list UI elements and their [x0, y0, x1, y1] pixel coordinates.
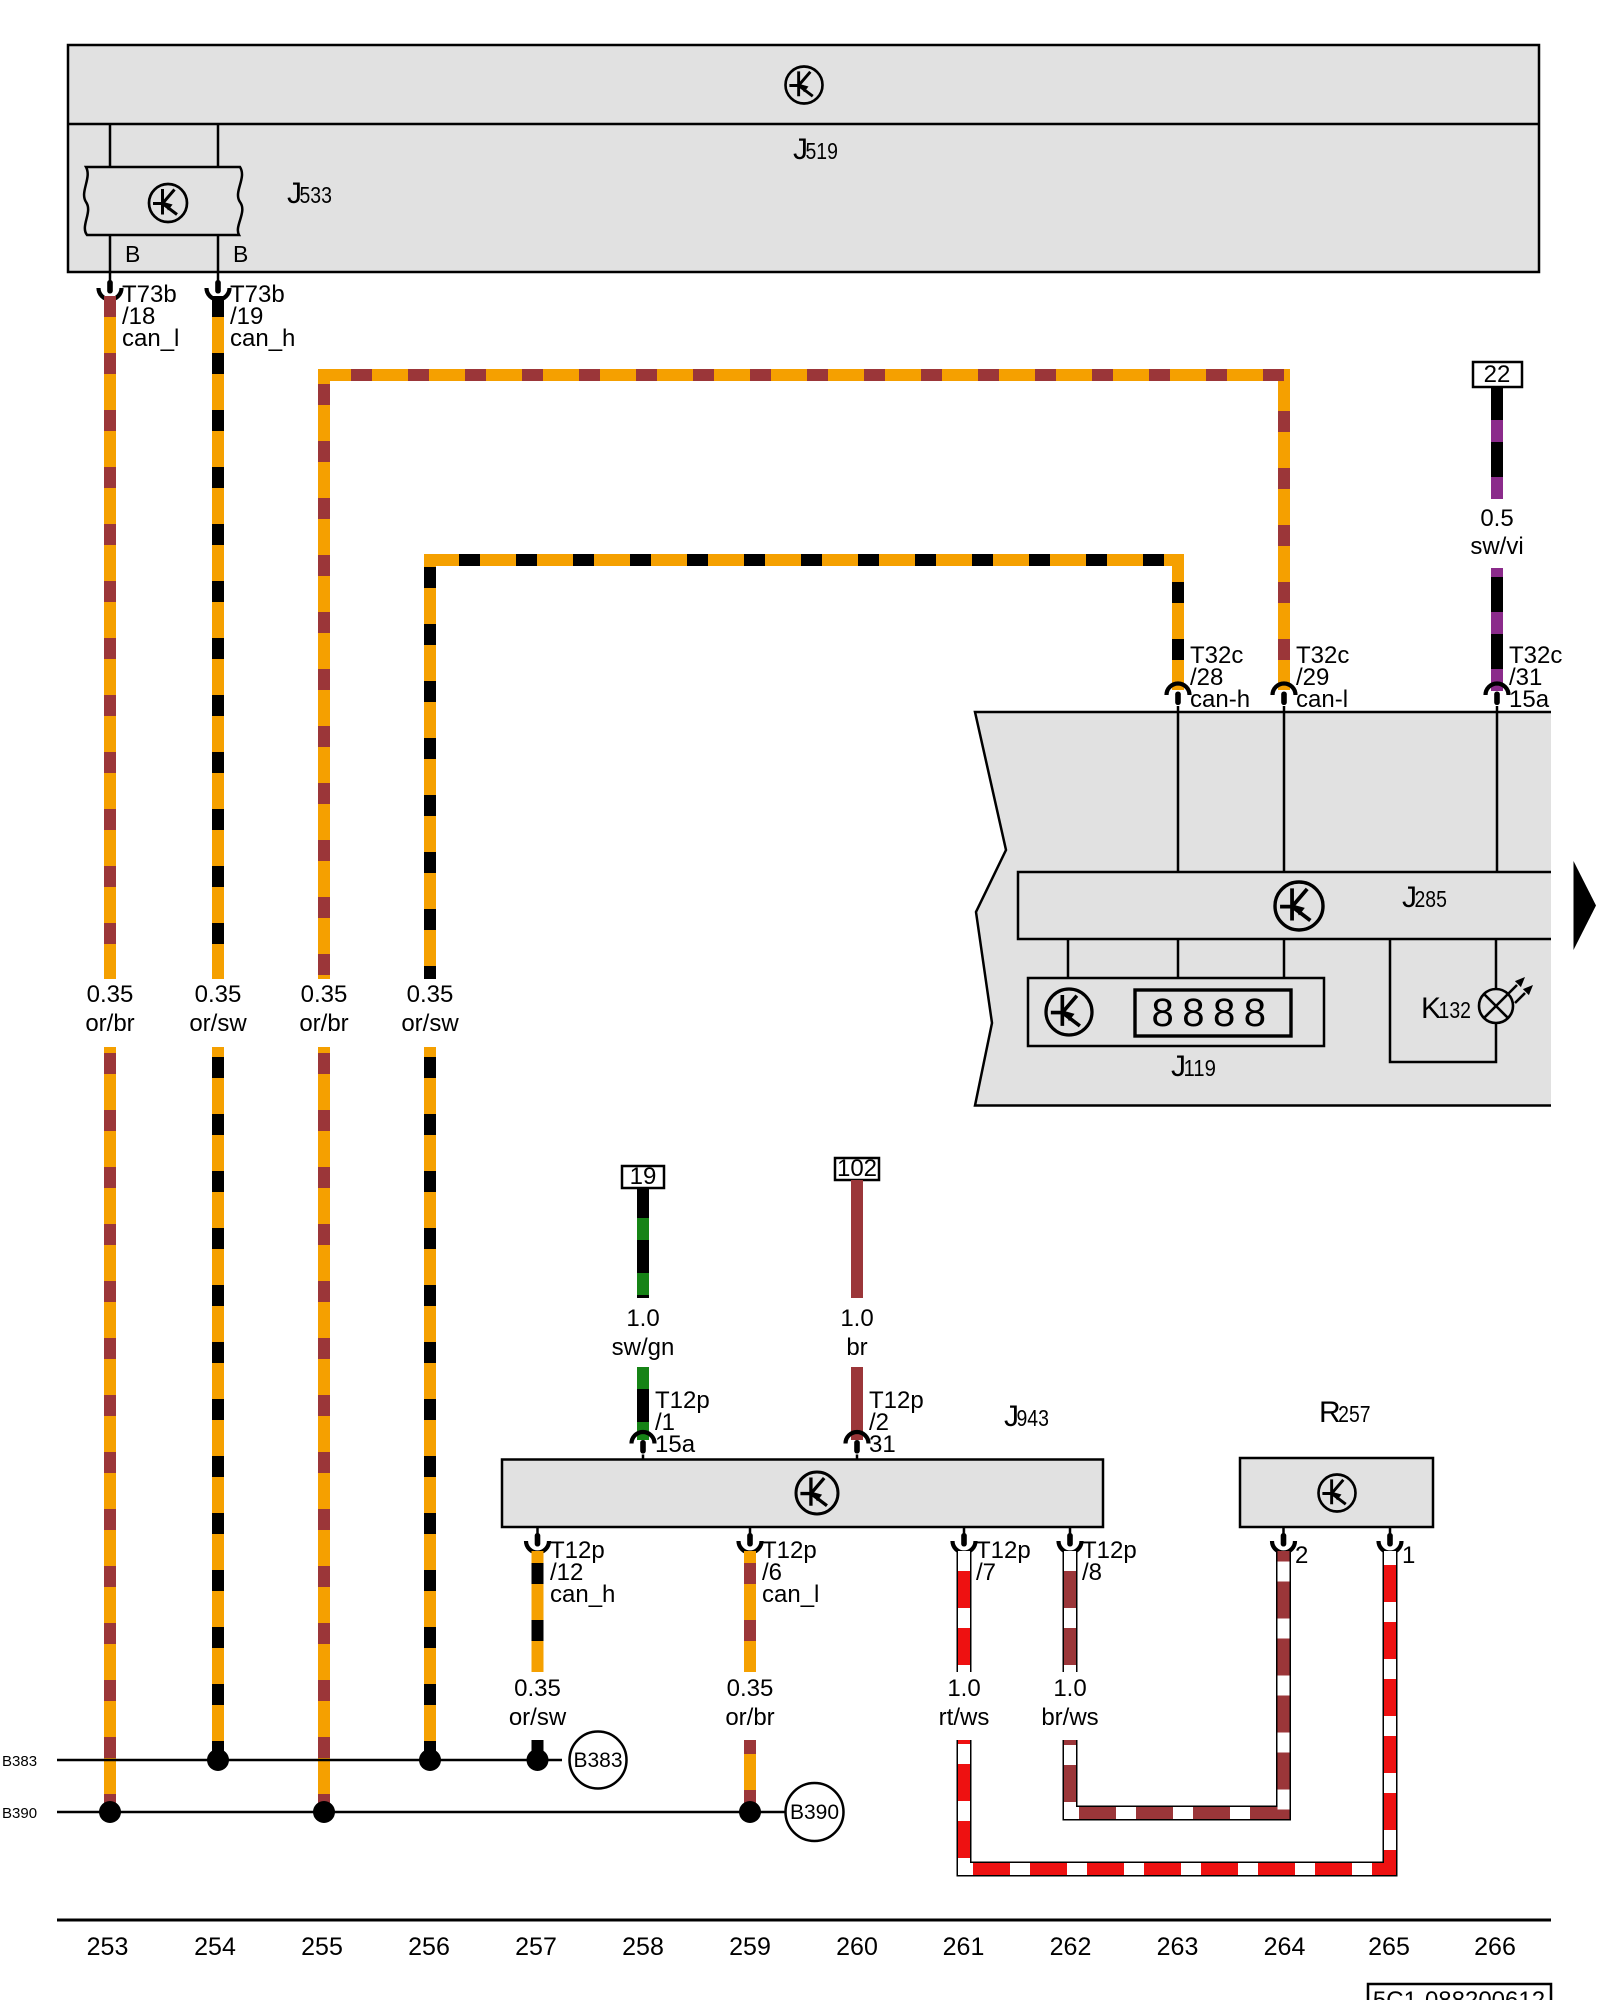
margin label B383 — [2, 1753, 37, 1770]
track number 259 — [729, 1933, 771, 1961]
control unit J943 (bar with K symbol) — [502, 1460, 1103, 1528]
svg-text:262: 262 — [1050, 1933, 1092, 1961]
svg-text:J119: J119 — [1171, 1050, 1216, 1083]
svg-text:261: 261 — [943, 1933, 985, 1961]
wire B stub left (J533 pin B to J519 internals) — [109, 124, 112, 274]
wire T32c/31 pin to J285 bar — [1496, 711, 1499, 872]
wire 0.35 or/br (T12p/6 to B390) upper segment — [744, 1551, 756, 1672]
control unit J519 (onboard supply control unit) — [68, 45, 1539, 272]
svg-text:0.35: 0.35 — [407, 981, 454, 1008]
junction dot wire254 on B383 — [207, 1749, 229, 1771]
ground rail B390 (horizontal line) — [57, 1811, 785, 1814]
svg-text:0.5: 0.5 — [1480, 505, 1513, 532]
connector T12p/7 — [953, 1527, 1031, 1586]
svg-text:1.0: 1.0 — [840, 1305, 873, 1332]
value label 0.35 or/sw (wire 254) — [189, 981, 247, 1037]
svg-text:257: 257 — [515, 1933, 557, 1961]
instrument cluster region (torn-edge area containing J285, J119, K132) — [975, 712, 1551, 1106]
connector T73b/19 — [207, 274, 296, 352]
svg-text:1.0: 1.0 — [626, 1305, 659, 1332]
terminal 102 (node box) — [835, 1155, 879, 1182]
connector T12p/6 can_l — [739, 1527, 820, 1608]
value label 0.35 or/br (wire 255) — [299, 981, 348, 1037]
svg-text:K132: K132 — [1421, 992, 1471, 1025]
svg-text:J533: J533 — [287, 177, 332, 210]
value label 1.0 br/ws (wire 262) — [1041, 1675, 1098, 1731]
wire 0.35 or/br lower segment to B390 — [744, 1740, 756, 1812]
track number 255 — [301, 1933, 343, 1961]
connector T32c/28 can-h — [1167, 642, 1251, 713]
wire can-l 0.35 or/br lower segment to B390 — [318, 1047, 330, 1812]
svg-text:0.35: 0.35 — [514, 1675, 561, 1702]
gateway J533 (data bus diagnostic interface, torn-edge box) — [84, 167, 332, 235]
wire 1.0 rt/ws (T12p/7 to R257 pin 1) upper segment — [957, 1551, 972, 1672]
svg-text:1.0: 1.0 — [947, 1675, 980, 1702]
wire T32c/28 pin to J285 bar — [1177, 711, 1180, 872]
wire can_l 0.35 or/br (J533 T73b/18 to ground B390), upper segment — [104, 296, 116, 979]
svg-text:254: 254 — [194, 1933, 236, 1961]
wire J285 to J119 (left) — [1067, 939, 1070, 979]
wire B stub right (J533 pin B to J519 internals) — [217, 124, 220, 274]
junction dot wire253 on B390 — [99, 1801, 121, 1823]
svg-text:rt/ws: rt/ws — [939, 1704, 990, 1731]
wire can_h 0.35 or/sw lower segment — [212, 1047, 224, 1760]
svg-text:or/br: or/br — [299, 1010, 348, 1037]
svg-text:or/br: or/br — [725, 1704, 774, 1731]
track number 262 — [1050, 1933, 1092, 1961]
wire 1.0 sw/gn upper segment — [637, 1188, 649, 1298]
svg-text:J943: J943 — [1004, 1400, 1049, 1433]
label K132 — [1421, 992, 1471, 1025]
ground designation circle B390 — [786, 1783, 844, 1841]
svg-text:B383: B383 — [573, 1749, 622, 1772]
connector T12p/12 can_h — [526, 1527, 615, 1608]
wire 1.0 br upper segment — [851, 1180, 863, 1298]
svg-text:or/sw: or/sw — [401, 1010, 459, 1037]
svg-text:266: 266 — [1474, 1933, 1516, 1961]
svg-text:1: 1 — [1402, 1542, 1415, 1569]
connector T73b/18 — [99, 274, 180, 352]
pin label B (right) — [233, 241, 248, 267]
connector T12p/1 15a — [632, 1387, 710, 1460]
svg-text:22: 22 — [1484, 361, 1511, 388]
wire 0.35 or/sw stub to B383 — [532, 1740, 544, 1760]
svg-text:or/br: or/br — [85, 1010, 134, 1037]
track number 257 — [515, 1933, 557, 1961]
terminal 19 (node box) — [622, 1163, 664, 1190]
svg-text:0.35: 0.35 — [301, 981, 348, 1008]
connector R257 pin 1 — [1379, 1527, 1416, 1569]
svg-text:J519: J519 — [793, 133, 838, 166]
value label 0.35 or/br (wire 259) — [725, 1675, 774, 1731]
track number 253 — [87, 1933, 129, 1961]
svg-text:263: 263 — [1157, 1933, 1199, 1961]
track number 266 — [1474, 1933, 1516, 1961]
svg-text:sw/vi: sw/vi — [1470, 533, 1523, 560]
wire J285 to J119 (right) — [1283, 939, 1286, 979]
svg-text:260: 260 — [836, 1933, 878, 1961]
wire 0.5 sw/vi upper segment — [1491, 387, 1503, 499]
wire 1.0 br/ws (T12p/8 to R257 pin 2) upper segment — [1063, 1551, 1078, 1672]
label J119 — [1171, 1050, 1216, 1083]
svg-text:253: 253 — [87, 1933, 129, 1961]
display 8888 (odometer readout) — [1135, 990, 1291, 1036]
svg-text:255: 255 — [301, 1933, 343, 1961]
wire 0.35 or/sw (T12p/12 to B383) upper segment — [532, 1551, 544, 1672]
svg-text:0.35: 0.35 — [87, 981, 134, 1008]
svg-text:or/sw: or/sw — [189, 1010, 247, 1037]
svg-text:1.0: 1.0 — [1053, 1675, 1086, 1702]
part number box 5C1-088200612 — [1368, 1984, 1551, 2000]
track number 256 — [408, 1933, 450, 1961]
svg-text:B383: B383 — [2, 1753, 37, 1770]
control unit J119 (multi-function display box) — [1028, 978, 1324, 1046]
track number 254 — [194, 1933, 236, 1961]
svg-text:0.35: 0.35 — [727, 1675, 774, 1702]
svg-text:B: B — [125, 241, 140, 267]
connector T12p/2 31 — [846, 1387, 924, 1460]
wire 1.0 br lower segment — [851, 1367, 863, 1440]
current track baseline — [57, 1919, 1551, 1922]
junction dot wire259 on B390 — [739, 1801, 761, 1823]
svg-text:258: 258 — [622, 1933, 664, 1961]
junction dot wire257 on B383 — [527, 1749, 549, 1771]
label J943 — [1004, 1400, 1049, 1433]
svg-text:B: B — [233, 241, 248, 267]
wire T32c/29 pin to J285 bar — [1283, 711, 1286, 872]
value label 1.0 sw/gn — [612, 1305, 675, 1361]
svg-text:5C1-088200612: 5C1-088200612 — [1373, 1987, 1545, 2000]
wire can_l 0.35 or/br lower segment — [104, 1047, 116, 1812]
margin label B390 — [2, 1805, 37, 1822]
wire can-l 0.35 or/br (T32c/29 of J285 down-over-down), upper segment — [324, 375, 1284, 979]
connector T32c/29 can-l — [1273, 642, 1350, 713]
control unit J285 (instrument cluster bar) — [1018, 872, 1551, 939]
wire J285 to J119 (middle) — [1177, 939, 1180, 979]
wire 0.5 sw/vi lower segment — [1491, 568, 1503, 691]
value label 1.0 br — [840, 1305, 873, 1361]
value label 0.35 or/sw (wire 256) — [401, 981, 459, 1037]
svg-text:J285: J285 — [1402, 881, 1447, 914]
wire loop J285 to lamp K132 — [1390, 939, 1496, 1062]
svg-text:br/ws: br/ws — [1041, 1704, 1098, 1731]
track number 263 — [1157, 1933, 1199, 1961]
svg-text:2: 2 — [1295, 1542, 1308, 1569]
value label 0.35 or/br (wire 253) — [85, 981, 134, 1037]
wire can-h 0.35 or/sw lower segment to B383 — [424, 1047, 436, 1760]
connector R257 pin 2 — [1272, 1527, 1308, 1569]
svg-text:265: 265 — [1368, 1933, 1410, 1961]
track number 260 — [836, 1933, 878, 1961]
track number 265 — [1368, 1933, 1410, 1961]
ground designation circle B383 — [570, 1732, 627, 1789]
svg-text:R257: R257 — [1319, 1396, 1371, 1429]
track number 261 — [943, 1933, 985, 1961]
svg-text:256: 256 — [408, 1933, 450, 1961]
wire can_h 0.35 or/sw (J533 T73b/19 to ground B383), upper segment — [212, 296, 224, 979]
svg-text:B390: B390 — [2, 1805, 37, 1822]
label R257 — [1319, 1396, 1371, 1429]
value label 0.5 sw/vi — [1470, 505, 1523, 560]
junction dot wire256 on B383 — [419, 1749, 441, 1771]
lamp K132 (warning lamp with LED arrows) — [1479, 977, 1533, 1023]
svg-text:sw/gn: sw/gn — [612, 1334, 675, 1361]
ground rail B383 (horizontal line) — [57, 1759, 562, 1762]
pin label B (left) — [125, 241, 140, 267]
wire 1.0 br/ws down-over-up run to R257 pin 2 — [1070, 1551, 1284, 1813]
wire 1.0 sw/gn lower segment — [637, 1367, 649, 1440]
svg-text:8888: 8888 — [1152, 991, 1275, 1035]
svg-text:19: 19 — [630, 1163, 657, 1190]
terminal 22 (node box) — [1473, 361, 1522, 388]
wire 1.0 rt/ws down-over-up run to R257 pin 1 — [964, 1551, 1390, 1869]
connector T12p/8 — [1059, 1527, 1137, 1586]
component R257 (bar with K symbol) — [1240, 1458, 1433, 1527]
wire can-h 0.35 or/sw (T32c/28 of J285 down-over-down), upper segment — [430, 560, 1178, 979]
track number 258 — [622, 1933, 664, 1961]
svg-text:102: 102 — [837, 1155, 877, 1182]
svg-text:0.35: 0.35 — [195, 981, 242, 1008]
svg-text:br: br — [846, 1334, 867, 1361]
value label 1.0 rt/ws (wire 261) — [939, 1675, 990, 1731]
track number 264 — [1264, 1933, 1306, 1961]
connector T32c/31 15a — [1486, 642, 1563, 713]
svg-text:B390: B390 — [790, 1801, 839, 1824]
continuation arrow (right edge) — [1574, 861, 1597, 950]
svg-text:264: 264 — [1264, 1933, 1306, 1961]
value label 0.35 or/sw (wire 257) — [509, 1675, 567, 1731]
junction dot wire255 on B390 — [313, 1801, 335, 1823]
svg-text:259: 259 — [729, 1933, 771, 1961]
svg-text:or/sw: or/sw — [509, 1704, 567, 1731]
